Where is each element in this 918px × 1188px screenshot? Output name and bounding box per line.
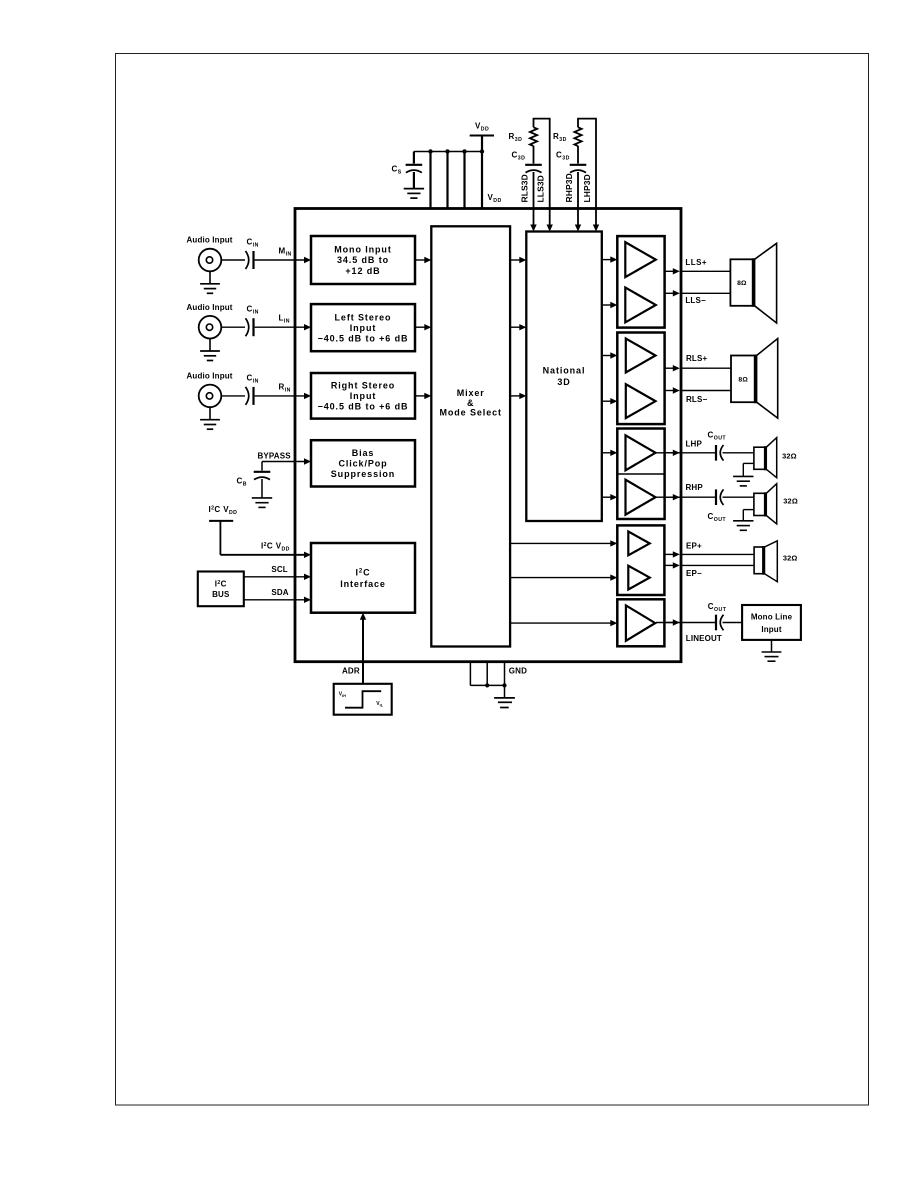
svg-text:I2C: I2C: [355, 568, 370, 578]
svg-text:I2C VDD: I2C VDD: [209, 505, 238, 516]
svg-text:32Ω: 32Ω: [782, 452, 797, 461]
svg-text:COUT: COUT: [708, 431, 727, 442]
svg-text:8Ω: 8Ω: [737, 280, 747, 287]
svg-text:Input: Input: [350, 323, 377, 333]
svg-text:Input: Input: [350, 391, 377, 401]
svg-text:Right Stereo: Right Stereo: [331, 380, 395, 390]
svg-text:LIN: LIN: [279, 314, 290, 325]
svg-text:Left Stereo: Left Stereo: [335, 312, 392, 322]
svg-text:Mono Line: Mono Line: [751, 612, 793, 621]
svg-text:+12 dB: +12 dB: [345, 266, 380, 276]
svg-text:LLS+: LLS+: [685, 258, 707, 267]
svg-text:32Ω: 32Ω: [783, 554, 798, 563]
svg-text:R3D: R3D: [553, 132, 567, 143]
svg-text:VIH: VIH: [339, 692, 346, 699]
svg-text:BYPASS: BYPASS: [258, 451, 292, 460]
svg-text:Mono Input: Mono Input: [334, 245, 391, 255]
svg-text:CIN: CIN: [247, 238, 259, 249]
svg-text:COUT: COUT: [708, 602, 727, 613]
svg-text:LLS3D: LLS3D: [536, 175, 546, 202]
svg-text:C3D: C3D: [512, 151, 526, 162]
svg-text:VIL: VIL: [376, 701, 383, 708]
svg-text:VDD: VDD: [488, 193, 502, 204]
svg-text:CB: CB: [237, 477, 247, 488]
svg-text:RHP3D: RHP3D: [564, 173, 574, 202]
svg-text:Bias: Bias: [352, 448, 375, 458]
svg-text:EP−: EP−: [686, 569, 702, 578]
svg-text:34.5 dB to: 34.5 dB to: [337, 255, 389, 265]
svg-text:3D: 3D: [557, 377, 570, 387]
svg-text:−40.5 dB to +6 dB: −40.5 dB to +6 dB: [318, 402, 409, 412]
svg-text:CIN: CIN: [247, 305, 259, 316]
svg-text:MIN: MIN: [279, 247, 292, 258]
svg-text:Interface: Interface: [340, 579, 386, 589]
svg-text:RLS+: RLS+: [686, 354, 707, 363]
svg-text:Audio Input: Audio Input: [187, 372, 233, 381]
svg-text:R3D: R3D: [509, 132, 523, 143]
svg-text:Input: Input: [761, 625, 781, 634]
svg-text:VDD: VDD: [475, 122, 489, 133]
svg-text:CIN: CIN: [247, 373, 259, 384]
svg-text:EP+: EP+: [686, 542, 702, 551]
svg-text:SDA: SDA: [271, 588, 288, 597]
svg-text:National: National: [543, 366, 586, 376]
svg-text:I2C VDD: I2C VDD: [261, 542, 290, 553]
svg-text:RHP: RHP: [686, 483, 704, 492]
svg-text:COUT: COUT: [708, 512, 727, 523]
svg-text:Mode Select: Mode Select: [439, 408, 501, 418]
svg-text:LHP: LHP: [686, 440, 703, 449]
svg-text:BUS: BUS: [212, 590, 230, 599]
svg-text:SCL: SCL: [271, 565, 287, 574]
svg-text:−40.5 dB to +6 dB: −40.5 dB to +6 dB: [318, 333, 409, 343]
svg-text:Audio Input: Audio Input: [187, 303, 233, 312]
svg-text:Click/Pop: Click/Pop: [338, 459, 387, 469]
svg-text:RLS−: RLS−: [686, 395, 707, 404]
svg-text:LHP3D: LHP3D: [582, 174, 592, 202]
svg-text:CS: CS: [392, 165, 402, 176]
svg-text:LINEOUT: LINEOUT: [686, 634, 722, 643]
svg-text:&: &: [467, 398, 474, 408]
svg-text:8Ω: 8Ω: [738, 377, 748, 384]
svg-text:RIN: RIN: [279, 382, 291, 393]
svg-text:Audio Input: Audio Input: [187, 236, 233, 245]
svg-text:RLS3D: RLS3D: [519, 174, 529, 202]
svg-text:I2C: I2C: [215, 579, 227, 588]
svg-text:Mixer: Mixer: [457, 388, 485, 398]
svg-text:GND: GND: [509, 666, 527, 675]
svg-text:ADR: ADR: [342, 667, 360, 676]
svg-text:Suppression: Suppression: [331, 469, 395, 479]
svg-text:LLS−: LLS−: [685, 296, 706, 305]
svg-text:32Ω: 32Ω: [783, 497, 798, 506]
svg-text:C3D: C3D: [556, 151, 570, 162]
